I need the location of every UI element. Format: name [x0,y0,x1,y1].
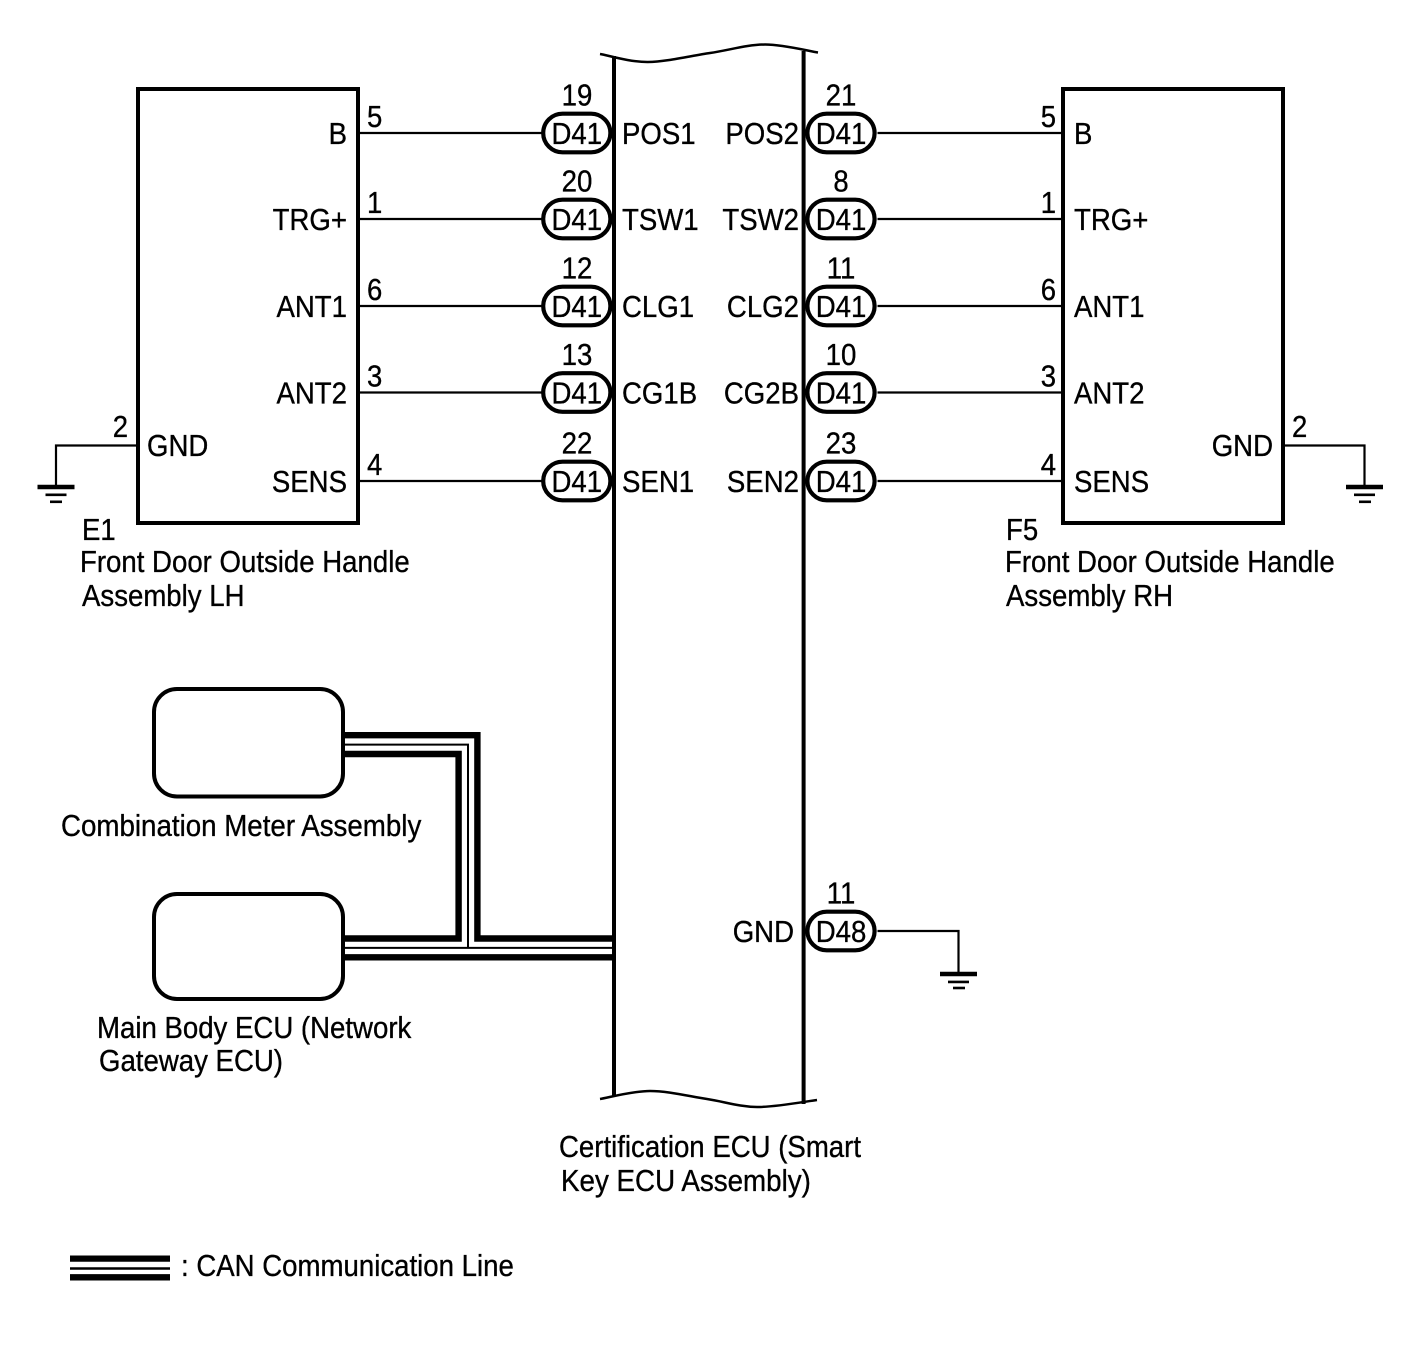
F5 terminal label ANT2 [1074,376,1145,411]
svg-text:D41: D41 [552,289,603,324]
svg-text:ANT2: ANT2 [277,376,348,411]
Main Body ECU label line 1 [97,1010,412,1045]
Certification ECU torn bottom edge [600,1091,817,1107]
pin number 23 (right D41 row SEN2) [826,426,857,461]
svg-text:GND: GND [733,914,794,949]
svg-text:Combination Meter Assembly: Combination Meter Assembly [61,808,422,843]
svg-text:21: 21 [826,78,857,113]
node Main Body ECU box [154,894,343,999]
wire E1 B pin 5 to D41 [360,132,543,134]
pin number 19 (left D41 row POS1) [562,78,593,113]
CAN bus lower line (Main Body ECU to Certification ECU) [343,954,612,960]
ground symbol (E1 GND) [38,487,75,502]
svg-text:D41: D41 [816,202,867,237]
wire E1 ANT2 pin 3 to D41 [360,391,543,393]
E1 terminal label GND [147,428,208,463]
svg-text:TRG+: TRG+ [1074,202,1148,237]
connector D41 pin 11 (right, CLG2) [807,287,874,326]
svg-text:Gateway ECU): Gateway ECU) [99,1043,283,1078]
wire E1 GND pin 2 to ground [56,446,136,487]
svg-text:20: 20 [562,164,593,199]
svg-text:Key ECU Assembly): Key ECU Assembly) [561,1163,811,1198]
CAN bus outer line (Combination Meter to Certification ECU) [343,735,612,938]
F5 terminal label SENS [1074,464,1149,499]
pin number 11 (D48 GND) [827,876,856,911]
svg-text:D41: D41 [552,376,603,411]
svg-text:CLG2: CLG2 [727,289,799,324]
E1 terminal label ANT1 [277,289,348,324]
wire E1 SENS pin 4 to D41 [360,480,543,482]
svg-text:12: 12 [562,251,593,286]
svg-text:F5: F5 [1006,512,1038,547]
svg-text:D41: D41 [816,289,867,324]
Combination Meter Assembly label [61,808,422,843]
svg-text:: CAN Communication Line: : CAN Communication Line [181,1248,514,1283]
svg-text:Main Body ECU (Network: Main Body ECU (Network [97,1010,412,1045]
signal label TSW1 [622,202,699,237]
Certification ECU name line 1 [559,1129,861,1164]
pin number 12 (left D41 row CLG1) [562,251,593,286]
E1 terminal label ANT2 [277,376,348,411]
svg-text:D41: D41 [816,376,867,411]
wire F5 B pin 5 to D41 [878,132,1062,134]
E1 reference designator [82,512,116,547]
svg-text:3: 3 [1041,359,1056,394]
svg-text:1: 1 [367,185,382,220]
ground symbol (D48 GND) [940,974,977,988]
svg-text:Front Door Outside Handle: Front Door Outside Handle [1005,544,1335,579]
node Combination Meter Assembly box [154,689,343,797]
svg-text:CG1B: CG1B [622,376,697,411]
E1 name line 1 [80,544,410,579]
E1 pin number 4 (SENS) [367,447,382,482]
svg-text:D41: D41 [552,464,603,499]
legend text [181,1248,514,1283]
signal label SEN1 [622,464,694,499]
E1 pin number 6 (ANT1) [367,272,382,307]
svg-text:TSW2: TSW2 [722,202,799,237]
F5 pin number 3 (ANT2) [1041,359,1056,394]
F5 pin number 1 (TRG+) [1041,185,1056,220]
signal label CLG2 [727,289,799,324]
wire F5 SENS pin 4 to D41 [878,480,1062,482]
svg-text:23: 23 [826,426,857,461]
F5 terminal label TRG+ [1074,202,1148,237]
ECU box F5 Front Door Outside Handle Assembly RH [1063,89,1283,523]
svg-text:SEN2: SEN2 [727,464,799,499]
signal label CG1B [622,376,697,411]
connector D41 pin 8 (right, TSW2) [807,200,874,239]
F5 terminal label ANT1 [1074,289,1145,324]
svg-text:TSW1: TSW1 [622,202,699,237]
svg-text:Front Door Outside Handle: Front Door Outside Handle [80,544,410,579]
F5 name line 2 [1006,578,1173,613]
F5 pin number 5 (B) [1041,99,1056,134]
svg-text:E1: E1 [82,512,116,547]
svg-text:ANT2: ANT2 [1074,376,1145,411]
connector D41 pin 13 (left, CG1B) [543,373,610,412]
svg-text:ANT1: ANT1 [277,289,348,324]
signal label CG2B [724,376,799,411]
connector D41 pin 12 (left, CLG1) [543,287,610,326]
svg-text:22: 22 [562,426,593,461]
svg-text:11: 11 [827,251,856,286]
svg-text:TRG+: TRG+ [273,202,347,237]
E1 pin number 5 (B) [367,99,382,134]
svg-text:Certification ECU (Smart: Certification ECU (Smart [559,1129,861,1164]
wire D48 pin 11 to ground [878,931,959,973]
F5 pin number 4 (SENS) [1041,447,1056,482]
pin number 21 (right D41 row POS2) [826,78,857,113]
svg-text:4: 4 [1041,447,1056,482]
svg-text:4: 4 [367,447,382,482]
svg-text:5: 5 [367,99,382,134]
F5 name line 1 [1005,544,1335,579]
wire E1 ANT1 pin 6 to D41 [360,305,543,307]
Main Body ECU label line 2 [99,1043,283,1078]
E1 pin number 1 (TRG+) [367,185,382,220]
svg-text:Assembly RH: Assembly RH [1006,578,1173,613]
pin number 22 (left D41 row SEN1) [562,426,593,461]
CAN bus center thin line (Main Body ECU to Certification ECU) [343,947,612,949]
pin number 11 (right D41 row CLG2) [827,251,856,286]
svg-text:POS1: POS1 [622,116,696,151]
signal label TSW2 [722,202,799,237]
E1 terminal label SENS [272,464,347,499]
F5 terminal label B [1074,116,1092,151]
E1 pin number 3 (ANT2) [367,359,382,394]
E1 terminal label TRG+ [273,202,347,237]
ground symbol (F5 GND) [1346,487,1383,502]
F5 pin number 6 (ANT1) [1041,272,1056,307]
svg-text:6: 6 [367,272,382,307]
connector D41 pin 22 (left, SEN1) [543,462,610,501]
connector D48 pin 11 (GND) [807,912,874,951]
signal label POS2 [725,116,799,151]
F5 reference designator [1006,512,1038,547]
svg-text:5: 5 [1041,99,1056,134]
svg-text:11: 11 [827,876,856,911]
svg-text:D41: D41 [552,116,603,151]
wire F5 ANT1 pin 6 to D41 [878,305,1062,307]
wire F5 ANT2 pin 3 to D41 [878,391,1062,393]
CAN bus inner line (Combination Meter to Main Body ECU) [343,754,459,939]
wire F5 GND pin 2 to ground [1285,446,1365,487]
svg-text:13: 13 [562,337,593,372]
svg-text:1: 1 [1041,185,1056,220]
svg-text:CLG1: CLG1 [622,289,694,324]
svg-text:POS2: POS2 [725,116,799,151]
svg-text:B: B [1074,116,1092,151]
svg-text:SENS: SENS [1074,464,1149,499]
signal label POS1 [622,116,696,151]
svg-text:ANT1: ANT1 [1074,289,1145,324]
pin number 13 (left D41 row CG1B) [562,337,593,372]
signal label SEN2 [727,464,799,499]
svg-text:B: B [329,116,347,151]
connector D41 pin 10 (right, CG2B) [807,373,874,412]
svg-text:D41: D41 [816,464,867,499]
svg-text:GND: GND [147,428,208,463]
svg-text:3: 3 [367,359,382,394]
pin number 20 (left D41 row TSW1) [562,164,593,199]
pin number 10 (right D41 row CG2B) [826,337,857,372]
Certification ECU right edge [802,51,806,1104]
svg-text:CG2B: CG2B [724,376,799,411]
ECU box E1 Front Door Outside Handle Assembly LH [138,89,358,523]
svg-text:SENS: SENS [272,464,347,499]
Certification ECU name line 2 [561,1163,811,1198]
svg-text:SEN1: SEN1 [622,464,694,499]
svg-text:GND: GND [1212,428,1273,463]
legend CAN line symbol [70,1259,170,1278]
wire F5 TRG+ pin 1 to D41 [878,218,1062,220]
svg-text:6: 6 [1041,272,1056,307]
wire E1 TRG+ pin 1 to D41 [360,218,543,220]
Certification ECU torn top edge [600,44,818,62]
connector D41 pin 19 (left, POS1) [543,114,610,153]
connector D41 pin 21 (right, POS2) [807,114,874,153]
F5 pin number 2 (GND) [1292,409,1307,444]
E1 terminal label B [329,116,347,151]
pin number 8 (right D41 row TSW2) [833,164,848,199]
connector D41 pin 20 (left, TSW1) [543,200,610,239]
F5 terminal label GND [1212,428,1273,463]
CAN bus center thin line (Combination Meter branch) [343,745,468,948]
svg-text:19: 19 [562,78,593,113]
svg-text:D41: D41 [552,202,603,237]
svg-text:2: 2 [113,409,128,444]
svg-text:8: 8 [833,164,848,199]
svg-text:D48: D48 [816,914,867,949]
svg-text:Assembly LH: Assembly LH [82,578,245,613]
connector D41 pin 23 (right, SEN2) [807,462,874,501]
svg-text:2: 2 [1292,409,1307,444]
svg-text:10: 10 [826,337,857,372]
signal label CLG1 [622,289,694,324]
E1 name line 2 [82,578,245,613]
signal label GND (Certification ECU) [733,914,794,949]
Certification ECU left edge [612,56,616,1096]
E1 pin number 2 (GND) [113,409,128,444]
svg-text:D41: D41 [816,116,867,151]
